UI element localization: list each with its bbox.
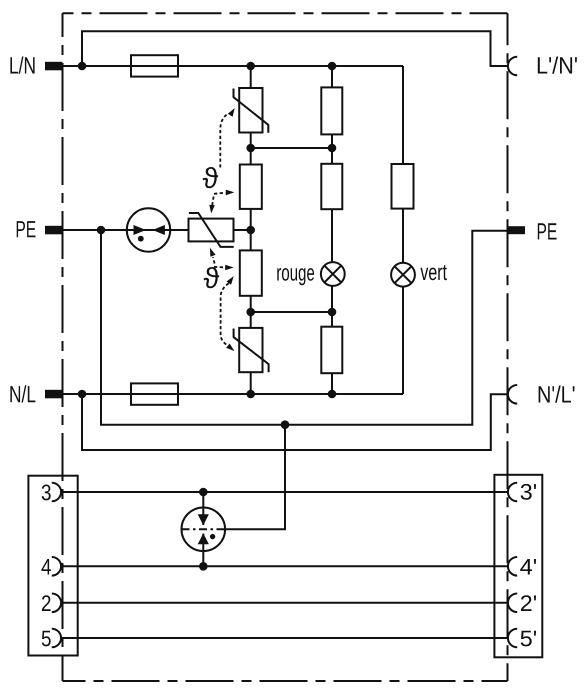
node col2 bottom xyxy=(328,390,337,399)
thermal disconnect arrow A5 (theta2 to R2) xyxy=(214,265,234,271)
contact 4' xyxy=(508,557,517,576)
fuse F2 (N/L) xyxy=(131,383,178,404)
node col1 top xyxy=(246,62,255,71)
label theta 2 xyxy=(204,267,220,288)
wire PE detour to PE' xyxy=(101,230,508,425)
terminal box right xyxy=(494,475,542,658)
node PE xyxy=(97,226,106,235)
contact 2 xyxy=(52,594,61,613)
wire L/N line xyxy=(62,65,403,67)
node col1 mid1 xyxy=(246,144,255,153)
varistor RV3 (PE, horizontal) xyxy=(189,213,234,247)
wire line 3 xyxy=(61,491,508,493)
terminal PE right xyxy=(508,226,525,234)
lamp rouge xyxy=(321,262,345,286)
node PE detour xyxy=(281,420,290,429)
contact 4 xyxy=(52,557,61,576)
label 5' xyxy=(521,631,536,647)
contact L'/N' xyxy=(508,57,517,76)
wire N/L line xyxy=(62,393,403,395)
resistor R1 xyxy=(240,165,262,209)
node line3 xyxy=(199,488,208,497)
label N'/L' xyxy=(539,386,575,403)
terminal N/L xyxy=(45,390,62,399)
label vert xyxy=(420,265,447,280)
resistor R5 xyxy=(321,327,342,374)
label L'/N' xyxy=(538,57,577,74)
node col2 mid1 xyxy=(328,144,337,153)
label rouge xyxy=(277,268,314,285)
spark gap F3 (PE) xyxy=(127,208,170,251)
gas discharge tube F4 (3-4-PE) xyxy=(182,425,286,567)
label L/N xyxy=(10,57,34,74)
resistor R3 xyxy=(321,87,342,134)
label PE left xyxy=(17,221,36,237)
node L/N xyxy=(78,62,87,71)
wire L/N bypass to L'/N' xyxy=(82,31,508,66)
label theta 1 xyxy=(203,167,219,188)
label PE right xyxy=(538,223,557,239)
contact 5' xyxy=(508,629,517,648)
node PE-chain xyxy=(246,226,255,235)
wire PE line xyxy=(62,229,251,231)
resistor R2 xyxy=(240,250,262,295)
thermal disconnect arrow A1 (theta1 to RV1) xyxy=(220,108,234,167)
label N/L xyxy=(10,385,35,402)
terminal box left xyxy=(28,476,77,656)
wire N/L to N'/L' xyxy=(82,394,508,450)
wire column1 chain xyxy=(250,66,252,394)
node N/L xyxy=(78,390,87,399)
node col2 mid2 xyxy=(328,308,337,317)
wire mid link y312 xyxy=(251,311,332,313)
node col1 bottom xyxy=(246,390,255,399)
thermal disconnect arrow A6 (theta2 double arrow to R2 and RV2) xyxy=(221,276,235,351)
label 2 xyxy=(42,595,51,611)
contact 5 xyxy=(52,629,61,648)
varistor RV1 xyxy=(234,88,269,133)
node col1 mid2 xyxy=(246,308,255,317)
fuse F1 (L/N) xyxy=(131,55,178,76)
wire line 2 xyxy=(61,602,508,604)
label 3' xyxy=(521,484,536,500)
thermal disconnect arrow A3 (theta1 to RV3) xyxy=(209,197,215,214)
label 4' xyxy=(520,559,536,575)
label 5 xyxy=(42,631,51,647)
node line4 xyxy=(199,562,208,571)
wire column3 xyxy=(402,66,404,394)
resistor R4 xyxy=(321,164,342,209)
contact 2' xyxy=(508,594,517,613)
terminal PE left xyxy=(45,226,62,235)
label 2' xyxy=(521,595,536,611)
enclosure dash-dot border xyxy=(63,13,508,681)
wire line 4 xyxy=(61,565,508,567)
wire line 5 xyxy=(61,637,508,639)
thermal disconnect arrow A4 (theta2 to RV3) xyxy=(210,248,216,264)
lamp vert xyxy=(391,263,415,287)
node col2 top xyxy=(328,62,337,71)
wire mid link y148 xyxy=(251,147,332,149)
varistor RV2 xyxy=(234,328,269,372)
contact 3 xyxy=(52,483,61,502)
wire column2 chain xyxy=(331,66,333,394)
thermal disconnect arrow A2 (theta1 to R1) xyxy=(214,190,234,196)
contact 3' xyxy=(508,483,517,502)
label 4 xyxy=(41,559,51,575)
label 3 xyxy=(42,485,51,501)
terminal L/N xyxy=(45,62,62,71)
contact N'/L' xyxy=(508,385,517,404)
resistor R6 xyxy=(392,164,414,209)
